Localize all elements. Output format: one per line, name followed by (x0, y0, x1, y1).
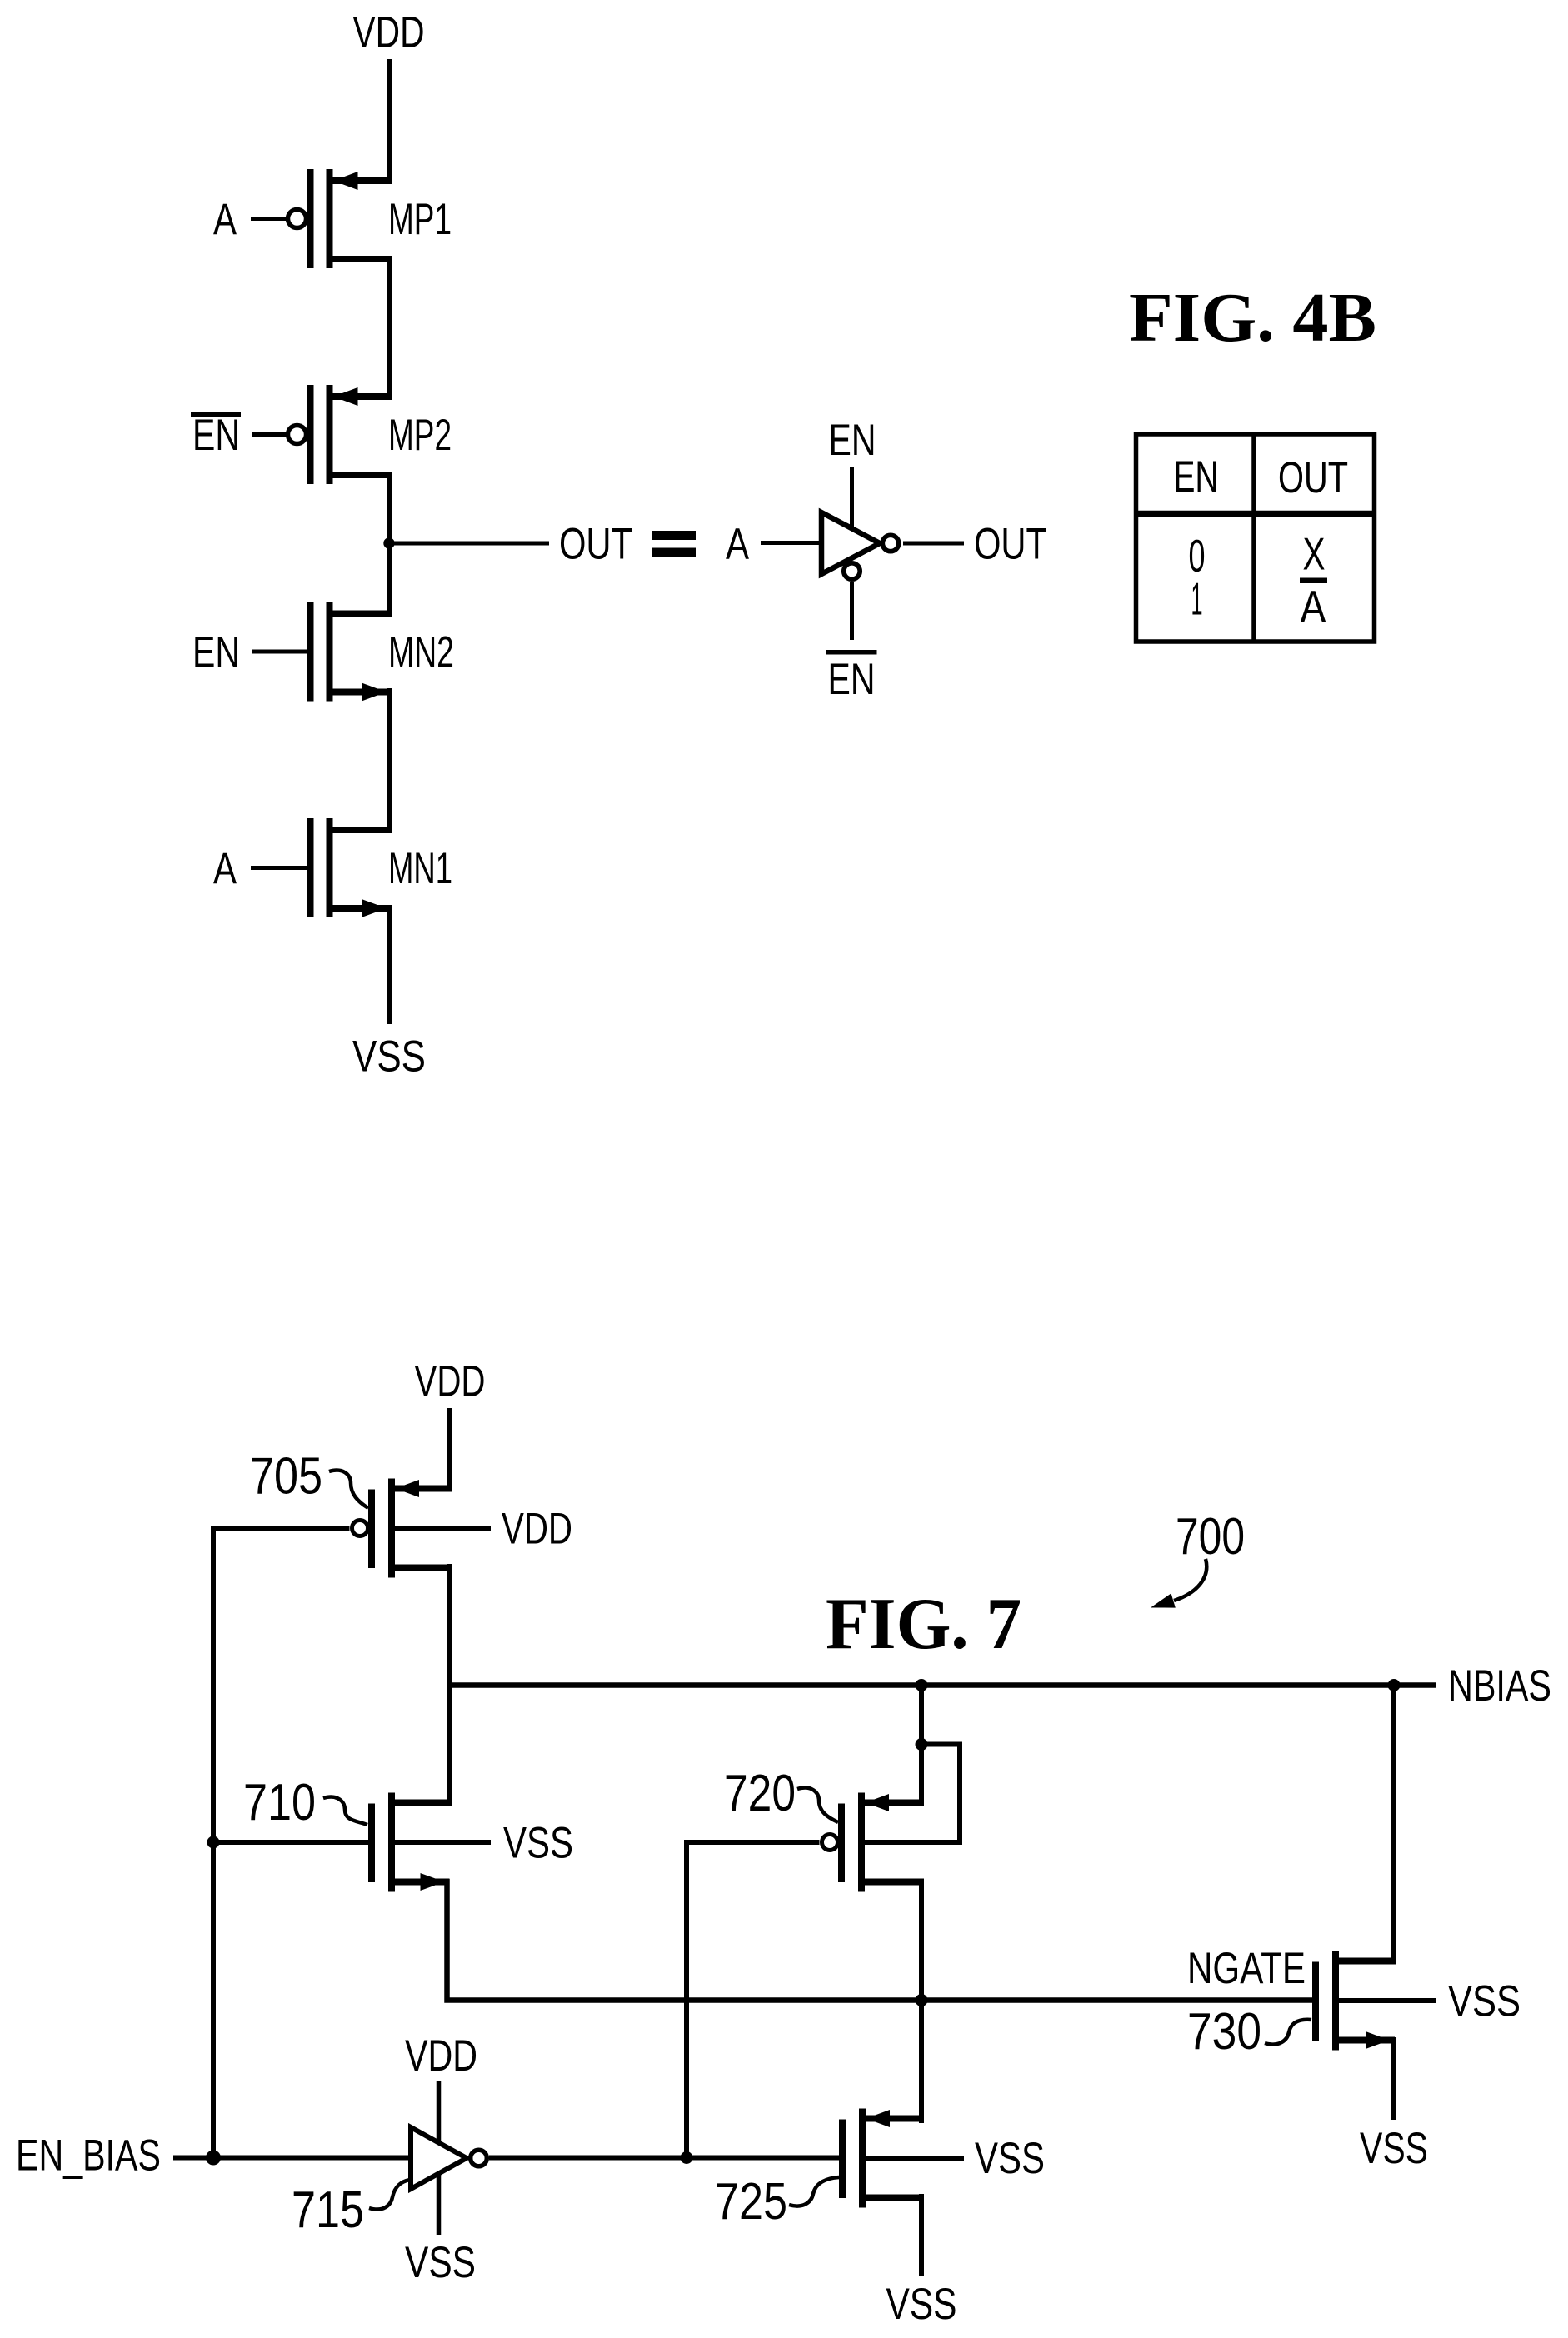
transistor 730 (NMOS) (1312, 1951, 1436, 2051)
wire MP1 drain to MP2 source (387, 256, 392, 400)
svg-text:VSS: VSS (975, 2134, 1045, 2183)
tri-state inverter U1 (821, 512, 880, 574)
svg-text:710: 710 (243, 1774, 316, 1831)
wire 710 bottom to NGATE line (447, 1879, 1316, 2001)
net label VSS (710 source) (503, 1819, 573, 1868)
svg-text:VSS: VSS (1448, 1977, 1521, 2026)
reference numeral 705 (250, 1448, 322, 1506)
wire MP2 drain to OUT node (387, 472, 392, 547)
figure title FIG. 7 (826, 1584, 1021, 1665)
svg-text:VSS: VSS (503, 1819, 573, 1868)
reference numeral 715 (292, 2181, 364, 2239)
gate wire EN-bar to MP2 (252, 432, 286, 437)
inverter U1 enable-bar bubble (844, 563, 860, 579)
svg-text:OUT: OUT (974, 520, 1047, 569)
reference numeral 710 (243, 1774, 316, 1831)
net label OUT (inverter output) (974, 520, 1047, 569)
label MN1 (388, 844, 452, 893)
pin label A (inverter input) (726, 520, 750, 569)
transistor 725 (NMOS) (839, 2109, 964, 2208)
net label VDD (top of 705) (415, 1357, 486, 1406)
wire gate rail EN_BIAS (left vertical) (211, 1528, 216, 2158)
wire inverter 715 output to 725 gate (489, 2156, 841, 2161)
wire NBIAS horizontal (447, 1682, 1437, 1688)
wire MN2 source to MN1 drain (387, 688, 392, 833)
transistor 720 (PMOS) (822, 1793, 961, 1892)
label MN2 (388, 628, 454, 677)
leader line 730 to gate (1265, 2020, 1311, 2045)
svg-text:A: A (213, 844, 237, 893)
inverter U1 output bubble (882, 535, 898, 551)
junction dot inverter output at 720 gate (681, 2151, 693, 2164)
reference numeral 700 (1176, 1508, 1245, 1566)
junction dot NBIAS at 720 branch (916, 1679, 928, 1691)
pin label EN (MN2 gate) (192, 628, 240, 677)
svg-text:700: 700 (1176, 1508, 1245, 1566)
gate wire A to MP1 (251, 217, 286, 221)
wire 725 bottom to VSS (919, 2194, 924, 2276)
inverter 715 output bubble (471, 2150, 487, 2166)
gate wire rail to 710 (213, 1840, 368, 1845)
truth table header OUT (1278, 453, 1348, 502)
svg-text:VSS: VSS (1360, 2124, 1428, 2173)
svg-text:FIG. 4B: FIG. 4B (1129, 279, 1376, 357)
svg-text:FIG. 7: FIG. 7 (826, 1584, 1021, 1665)
leader line 725 to gate (789, 2177, 839, 2206)
wire 720 bottom down to 725 top (919, 1879, 924, 2123)
pin label EN-bar (inverter) (826, 650, 877, 704)
wire 705 drain down to 710 drain (447, 1564, 452, 1806)
svg-text:NBIAS: NBIAS (1448, 1661, 1551, 1711)
wire OUT node to label (389, 542, 549, 546)
net label VSS (725 source) (975, 2134, 1045, 2183)
wire inverter 715 to VSS (437, 2173, 442, 2235)
junction dot NBIAS at 730 branch (1388, 1679, 1401, 1691)
transistor MP1 (PMOS) (288, 169, 392, 268)
svg-text:MP1: MP1 (388, 195, 452, 244)
leader line 720 to gate (797, 1788, 838, 1822)
svg-text:A: A (726, 520, 750, 569)
svg-text:NGATE: NGATE (1187, 1944, 1306, 1993)
svg-text:1: 1 (1191, 573, 1203, 625)
gate wire A to MN1 (251, 866, 307, 870)
net label VSS (below 730) (1360, 2124, 1428, 2173)
svg-text:EN_BIAS: EN_BIAS (16, 2131, 161, 2181)
junction dot 720 hook (916, 1738, 928, 1751)
svg-text:A: A (1301, 581, 1326, 632)
truth table cell OUT=A-bar (1300, 578, 1327, 633)
wire OUT node to MN2 drain (387, 540, 392, 617)
net label NBIAS (1448, 1661, 1551, 1711)
wire EN_BIAS to inverter 715 (173, 2156, 413, 2161)
transistor MN2 (NMOS) (307, 602, 392, 702)
svg-text:OUT: OUT (559, 520, 632, 569)
truth table cell EN=1 (1191, 573, 1203, 625)
truth table header EN (1174, 452, 1219, 502)
net label VDD (FIG 4B top) (353, 8, 425, 57)
gate wire EN to MN2 (252, 650, 307, 654)
svg-text:MN1: MN1 (388, 844, 452, 893)
wire EN to inverter U1 enable (850, 467, 854, 528)
svg-text:EN: EN (1174, 452, 1219, 502)
gate wire rail to 705 (211, 1526, 350, 1531)
svg-text:VDD: VDD (502, 1505, 572, 1554)
wire VDD to MP1 source (387, 59, 392, 184)
inverter 715 (411, 2127, 467, 2189)
wire A to inverter U1 (761, 541, 823, 545)
transistor 710 (NMOS) (368, 1793, 491, 1892)
wire 720 source hook up to NBIAS branch (865, 1745, 960, 1843)
transistor 705 (PMOS) (352, 1479, 492, 1578)
reference numeral 720 (724, 1765, 796, 1822)
label MP2 (388, 411, 452, 460)
wire EN-bar to inverter U1 (850, 582, 854, 640)
net label VSS (715) (405, 2238, 476, 2287)
svg-text:EN: EN (829, 416, 876, 465)
net label VDD (715) (405, 2031, 477, 2081)
svg-text:705: 705 (250, 1448, 322, 1506)
transistor MP2 (PMOS) (288, 385, 392, 484)
wire MN1 source to VSS (387, 905, 392, 1024)
reference numeral 730 (1187, 2003, 1261, 2061)
junction dot NGATE at 720-725 branch (916, 1994, 928, 2006)
equals sign (652, 531, 696, 557)
svg-text:VDD: VDD (415, 1357, 486, 1406)
pin label A (MP1 gate) (213, 195, 237, 244)
svg-text:VSS: VSS (405, 2238, 476, 2287)
net label VSS (below 725) (886, 2280, 957, 2329)
leader line 705 to gate (329, 1471, 368, 1508)
truth table frame (1136, 434, 1375, 642)
leader line 710 to gate (323, 1797, 367, 1825)
svg-text:EN: EN (828, 655, 876, 704)
net label OUT (FIG 4B left) (559, 520, 632, 569)
svg-text:VDD: VDD (405, 2031, 477, 2081)
pin label EN-bar (MP2 gate) (191, 411, 241, 460)
svg-text:VSS: VSS (352, 1032, 426, 1082)
net label NGATE (1187, 1944, 1306, 1993)
net label VSS (730 source) (1448, 1977, 1521, 2026)
gate wire 720 to inverter output rail (687, 1842, 820, 2158)
wire NBIAS branch down to 720 drain (919, 1686, 924, 1807)
svg-text:725: 725 (715, 2173, 787, 2231)
svg-text:MN2: MN2 (388, 628, 454, 677)
net label EN_BIAS (16, 2131, 161, 2181)
wire VDD down to 705 source lead (447, 1408, 452, 1491)
svg-text:EN: EN (192, 628, 240, 677)
net label VDD (705 source) (502, 1505, 572, 1554)
wire 730 drain up to NBIAS (1391, 1686, 1396, 1965)
svg-text:MP2: MP2 (388, 411, 452, 460)
svg-text:VSS: VSS (886, 2280, 957, 2329)
label MP1 (388, 195, 452, 244)
svg-text:X: X (1303, 528, 1326, 580)
pin label EN (inverter enable) (829, 416, 876, 465)
leader arrow 700 (1151, 1559, 1206, 1608)
figure title FIG. 4B (1129, 279, 1376, 357)
truth table cell OUT=X (1303, 528, 1326, 580)
truth table cell EN=0 (1189, 530, 1206, 582)
svg-text:OUT: OUT (1278, 453, 1348, 502)
junction dot OUT node (383, 537, 394, 548)
junction dot rail at 710 gate (207, 1836, 220, 1849)
wire 730 bottom to VSS (1391, 2037, 1396, 2120)
junction dot EN_BIAS at rail (206, 2151, 221, 2166)
pin label A (MN1 gate) (213, 844, 237, 893)
svg-text:720: 720 (724, 1765, 796, 1822)
svg-text:730: 730 (1187, 2003, 1261, 2061)
wire inverter U1 output to OUT (903, 542, 964, 546)
reference numeral 725 (715, 2173, 787, 2231)
svg-text:A: A (213, 195, 237, 244)
svg-text:EN: EN (192, 411, 240, 460)
transistor MN1 (NMOS) (307, 818, 392, 917)
net label VSS (FIG 4B bottom) (352, 1032, 426, 1082)
leader line 715 to inverter (369, 2180, 410, 2210)
svg-text:715: 715 (292, 2181, 364, 2239)
svg-text:VDD: VDD (353, 8, 425, 57)
wire VDD to inverter 715 (437, 2081, 442, 2144)
